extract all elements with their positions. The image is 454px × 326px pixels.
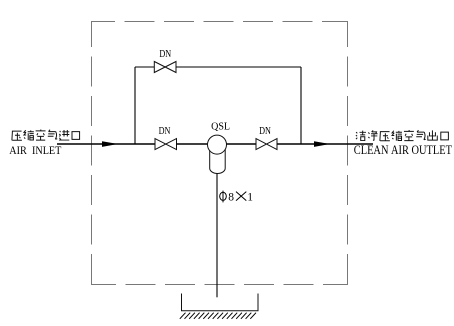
valve V3 (DN, bypass) [154, 62, 176, 73]
wire: bypass left riser [134, 67, 136, 144]
arrow outlet flow [314, 141, 330, 147]
wire: bypass top left segment [135, 66, 154, 68]
wire: valve V1 to filter [177, 143, 208, 145]
wire: bypass top right segment [176, 66, 301, 68]
svg-text:DN: DN [159, 49, 171, 60]
drain trough [182, 294, 259, 311]
valve V2 (DN, main right) [256, 139, 277, 150]
wire: outlet line [277, 143, 373, 145]
wire: filter to valve V2 [227, 143, 257, 145]
svg-text:CLEAN AIR OUTLET: CLEAN AIR OUTLET [354, 143, 452, 157]
label AIR INLET (Chinese) [12, 130, 80, 141]
label drain pipe size [220, 191, 254, 204]
arrow inlet flow [102, 141, 118, 147]
filter QSL head (circle) [208, 135, 227, 154]
svg-text:8: 8 [228, 191, 234, 203]
wire: bypass right riser [300, 67, 302, 144]
ground hatching [180, 313, 256, 319]
svg-text:DN: DN [159, 126, 171, 137]
label CLEAN AIR OUTLET (Chinese) [356, 130, 449, 141]
svg-text:QSL: QSL [211, 121, 230, 132]
enclosure dashed border [91, 21, 348, 285]
svg-text:AIR INLET: AIR INLET [9, 144, 61, 157]
wire: drain line [216, 174, 218, 298]
svg-text:DN: DN [259, 126, 271, 137]
wire: main inlet line [57, 143, 155, 145]
svg-text:1: 1 [247, 191, 253, 203]
filter QSL body (cylinder) [210, 146, 226, 174]
valve V1 (DN, main left) [155, 139, 177, 150]
